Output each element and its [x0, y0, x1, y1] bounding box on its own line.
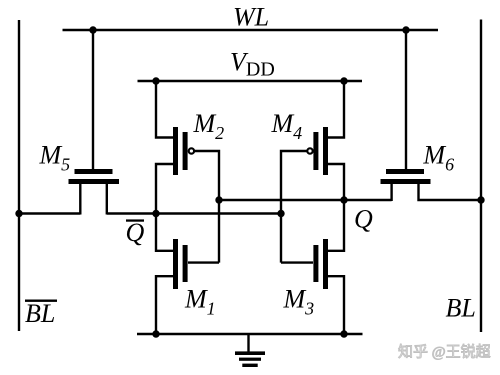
wire M3 gate stub: [281, 261, 313, 263]
wire M4 drain to node Q: [328, 164, 345, 200]
wire M6 left terminal stub: [390, 184, 392, 201]
wire node Qbar horizontal right segment (M5 to M4 gate line): [107, 212, 281, 214]
transistor M1 channel bar: [173, 239, 178, 289]
svg-text:M5: M5: [39, 140, 71, 174]
svg-text:知乎 @王锐超: 知乎 @王锐超: [398, 344, 491, 361]
svg-text:Q: Q: [126, 218, 145, 247]
junction WL-M5: [89, 26, 96, 33]
wire ground stem: [247, 334, 249, 352]
junction BLbar-M5: [15, 210, 22, 217]
junction VDD-M4: [340, 77, 347, 84]
wire WL to M6 gate: [405, 30, 407, 169]
wire M1 source to ground: [156, 276, 174, 334]
junction VDD-M2: [152, 77, 159, 84]
wire M4 gate cross-couple to node Qbar: [281, 151, 307, 263]
junction node Q inverter output: [340, 196, 347, 203]
transistor M3 gate bar: [313, 245, 318, 282]
svg-text:M3: M3: [283, 285, 315, 319]
transistor M6 channel bar: [381, 179, 431, 184]
wire M2 drain to node Qbar: [156, 164, 174, 214]
junction node Qbar inverter output: [152, 210, 159, 217]
junction WL-M6: [402, 26, 409, 33]
junction M1 source-ground: [152, 330, 159, 337]
overline of BLbar label: [25, 300, 57, 302]
wire node Q to M3 drain: [328, 200, 345, 251]
transistor M2 PMOS bubble: [189, 148, 194, 153]
junction BL-M6: [477, 196, 484, 203]
junction M3 source-ground: [340, 330, 347, 337]
wire VDD rail: [138, 80, 363, 82]
svg-text:M4: M4: [271, 109, 303, 143]
transistor M3 channel bar: [323, 239, 328, 289]
transistor M2 channel bar: [173, 127, 178, 175]
svg-text:M2: M2: [193, 109, 225, 143]
wire M1 gate stub: [188, 261, 219, 263]
svg-text:BL: BL: [446, 294, 476, 323]
wire M2 gate cross-couple to node Q: [195, 151, 219, 263]
wire WL to M5 gate: [92, 30, 94, 169]
wire VDD to M4 source: [328, 81, 345, 138]
svg-text:BL: BL: [25, 299, 55, 328]
transistor M4 PMOS bubble: [307, 148, 312, 153]
transistor M6 gate bar: [386, 169, 424, 174]
wire node Q horizontal segment (M2 gate line to M6): [219, 199, 392, 201]
wire M6 right terminal to BL: [419, 184, 482, 200]
ground symbol: [235, 351, 265, 355]
wire M3 source to ground: [328, 276, 345, 334]
wire M5 left terminal stub: [79, 184, 81, 215]
svg-text:WL: WL: [233, 3, 269, 32]
wire VDD to M2 source: [156, 81, 174, 138]
overline of node Qbar label: [126, 219, 144, 221]
transistor M4 gate bar: [313, 132, 318, 170]
wire M5 right terminal stub: [106, 184, 108, 215]
transistor M5 channel bar: [69, 179, 120, 184]
transistor M1 gate bar: [183, 245, 188, 282]
svg-text:Q: Q: [354, 205, 373, 234]
transistor M4 channel bar: [323, 127, 328, 175]
junction node Qbar to M4 gate: [277, 210, 284, 217]
svg-text:VDD: VDD: [230, 48, 275, 81]
transistor M2 gate bar: [183, 132, 188, 170]
wire ground rail: [137, 333, 363, 335]
wire node Qbar to M1 drain: [156, 214, 174, 251]
wire BLbar vertical bit line: [18, 20, 20, 331]
wire node Qbar horizontal left segment (BLbar to M5): [19, 212, 80, 214]
junction node Q to M2 gate: [215, 196, 222, 203]
wire WL word line rail: [63, 29, 439, 31]
svg-text:M6: M6: [422, 140, 454, 174]
svg-text:M1: M1: [184, 285, 216, 319]
transistor M5 gate bar: [75, 169, 113, 174]
wire BL vertical bit line: [480, 20, 482, 333]
